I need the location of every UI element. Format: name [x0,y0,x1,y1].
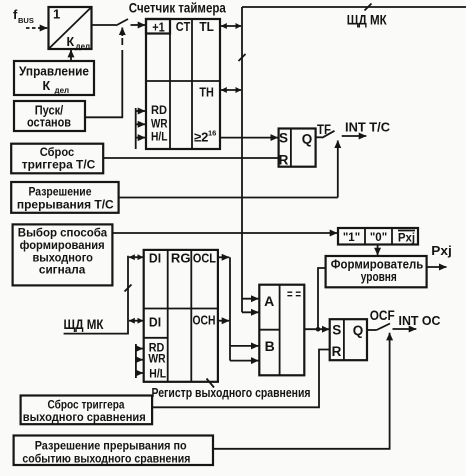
svg-text:H/L: H/L [151,132,168,144]
svg-text:+1: +1 [152,20,165,34]
box: Сброс триггера T/C [11,144,103,174]
wire: comparator B inputs [230,346,259,361]
wire: Kdel control up arrow [70,50,72,61]
wire: reset OC to R path [152,350,329,408]
svg-text:1: 1 [53,7,60,22]
wire: branch up to level former input [318,268,326,329]
box: Выбор способа формирования выходного сигнала [13,224,113,285]
svg-text:Сброс триггера: Сброс триггера [48,399,126,411]
svg-text:A: A [264,293,274,309]
trigger TF [279,129,316,168]
svg-text:OCL: OCL [193,251,216,265]
block: timer counter [146,19,220,149]
svg-text:DI: DI [149,316,161,330]
svg-text:событию выходного сравнения: событию выходного сравнения [22,451,190,465]
box: Разрешение прерывания T/C [11,182,118,213]
wire: reset trigger T/C to R input [103,157,278,159]
block: prescaler divider Kdel [49,7,92,52]
svg-text:К: К [67,35,75,49]
svg-text:Q: Q [302,131,313,146]
svg-text:"0": "0" [370,232,387,244]
svg-text:RG: RG [171,251,191,265]
wire: cells down arrow to level former [377,245,379,256]
svg-text:дел: дел [55,86,70,95]
svg-text:"1": "1" [343,232,360,244]
label fBUS [13,7,34,25]
wire: counter overflow to S of TF [220,137,278,139]
wire: interrupt enable T/C up arrow [337,141,339,198]
bus: ШД МК top horizontal [242,4,466,28]
svg-text:Pxj: Pxj [398,233,415,245]
svg-text:OCF: OCF [370,308,395,323]
svg-text:останов: останов [27,115,71,129]
wire: fBUS dashed input arrow [26,27,47,29]
svg-text:триггера Т/С: триггера Т/С [22,158,96,172]
svg-text:B: B [265,338,275,354]
svg-text:CT: CT [176,19,191,34]
wire: interrupt enable OC up arrow [213,333,390,449]
wire: comparator A inputs from data bus [242,299,259,313]
svg-text:Q: Q [353,323,364,338]
svg-text:выходного сравнения: выходного сравнения [23,412,146,424]
svg-text:сигнала: сигнала [39,263,86,277]
wire: start/stop control arrow up to switch [85,28,122,118]
svg-text:ЩД МК: ЩД МК [347,12,388,27]
wire: register control stub RD/WR/H/L [136,344,143,378]
svg-text:R: R [279,152,289,167]
wire: comparator output to S of OCF [304,327,329,332]
svg-text:Счетчик таймера: Счетчик таймера [129,0,226,15]
wire: register DI double arrows [129,257,143,321]
svg-text:INT OC: INT OC [399,313,442,328]
svg-text:INT T/C: INT T/C [345,120,391,135]
block: comparator A == B [259,285,304,376]
wire: counter control stub RD/WR/H/L [136,108,146,149]
svg-text:прерывания Т/С: прерывания Т/С [17,198,114,212]
wire: TL to bus double arrow [221,25,241,27]
wire: mode select to cells [112,232,337,234]
wire: interrupt enable T/C horizontal [119,197,338,199]
box: mode cells "1" "0" Pxj [338,228,418,245]
svg-text:DI: DI [149,251,161,265]
box: Пуск/останов [14,101,85,131]
box: Формирователь уровня [326,256,427,287]
box: Управление Кдел [14,61,94,95]
svg-text:Регистр выходного сравнения: Регистр выходного сравнения [152,385,311,400]
svg-text:BUS: BUS [18,16,34,25]
bus: vertical data bus [239,7,246,312]
svg-text:RD: RD [151,105,167,117]
svg-text:S: S [279,130,288,145]
wire: TF Q output, switch and INT T/C arrow [316,120,391,138]
svg-text:дел: дел [76,42,91,51]
svg-text:TL: TL [199,19,214,34]
svg-text:R: R [332,344,342,359]
svg-text:Pxj: Pxj [431,244,452,258]
wire: prescaler output with open switch to counter [92,19,146,26]
box: Разрешение прерывания по событию выходного сравнения [14,436,213,466]
wire: TH to bus double arrow [221,89,241,91]
svg-text:= =: = = [287,287,301,302]
svg-text:S: S [332,323,341,338]
svg-text:К: К [43,79,51,93]
svg-text:ЩД МК: ЩД МК [64,317,105,332]
wire: OCF Q output, switch and INT OC arrow [367,308,441,330]
svg-text:H/L: H/L [149,369,166,381]
wire: Pxj output arrow [427,244,452,267]
svg-text:Разрешение: Разрешение [29,185,92,199]
bus: OCL/OCH vertical to comparator B [229,257,231,360]
svg-text:Разрешение прерывания по: Разрешение прерывания по [35,438,187,452]
wire: OCL output arrow [218,256,229,258]
svg-text:Управление: Управление [19,65,89,79]
svg-text:уровня: уровня [361,270,397,284]
svg-text:TF: TF [317,122,331,137]
block: output compare register [144,250,218,382]
svg-text:WR: WR [148,354,166,366]
trigger OCF [330,319,367,360]
box: Сброс триггера выходного сравнения [21,396,153,425]
svg-text:16: 16 [208,129,216,138]
svg-text:TH: TH [199,84,214,99]
svg-text:≥2: ≥2 [194,130,208,145]
label: Регистр выходного сравнения [152,379,311,400]
wire: ШД МК to register vertical [64,256,132,334]
svg-text:WR: WR [151,118,168,130]
svg-text:OCH: OCH [193,314,216,328]
wire: OCH output arrow [218,320,229,322]
